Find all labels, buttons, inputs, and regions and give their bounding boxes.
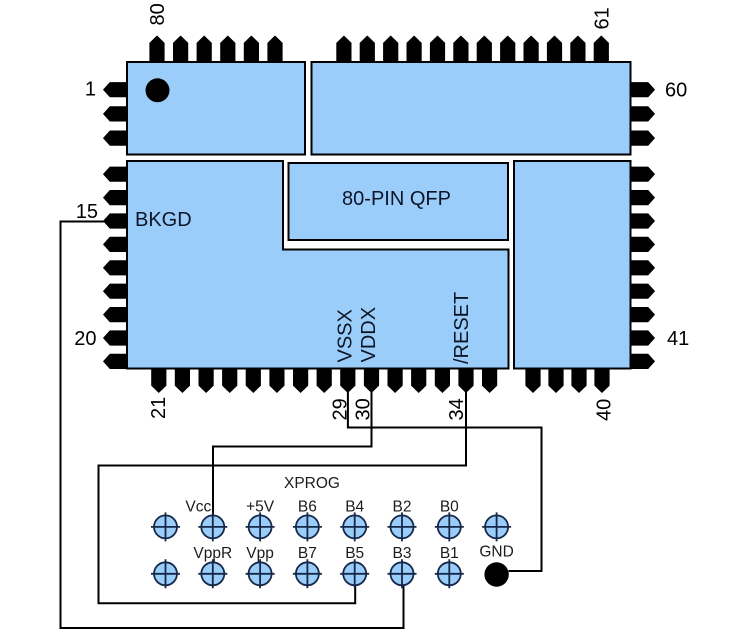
XPROG header pad Vpp bottom row col 3 <box>246 559 275 588</box>
svg-text:B4: B4 <box>345 499 364 516</box>
XPROG header pad VppR bottom row col 2 <box>198 559 227 588</box>
top pin group pins 74-61 <box>337 36 609 63</box>
svg-text:Vcc: Vcc <box>185 499 211 516</box>
bottom pin group pins 21-35 incl VSSX 29 VDDX 30 RESET 34 <box>152 368 497 393</box>
XPROG header pad +5V top row col 3 <box>246 512 275 541</box>
XPROG header pad B3 bottom row col 6 <box>388 559 417 588</box>
QFP body main lower-left L-shaped block <box>127 161 509 369</box>
svg-text:20: 20 <box>74 328 96 350</box>
XPROG header pad B7 bottom row col 4 <box>293 559 322 588</box>
XPROG header pad B5 bottom row col 5 <box>340 559 369 588</box>
svg-text:80: 80 <box>147 3 169 25</box>
svg-text:41: 41 <box>667 328 689 350</box>
right pin group pins 48-41 <box>630 167 655 369</box>
wire BKGD net: pin 15 to XPROG B3 <box>61 222 404 629</box>
svg-text:1: 1 <box>85 79 96 101</box>
left pin group pins 1-3 <box>104 83 128 146</box>
XPROG header pad Vcc top row col 2 <box>198 512 227 541</box>
svg-text:B1: B1 <box>440 545 459 562</box>
bottom pin group pins 37-40 <box>526 368 609 393</box>
svg-text:40: 40 <box>594 399 616 421</box>
svg-text:60: 60 <box>665 80 687 102</box>
wire /RESET net: pin 34 to XPROG B5 <box>99 389 467 603</box>
svg-text:29: 29 <box>330 398 352 420</box>
svg-text:15: 15 <box>76 201 98 223</box>
wire VSSX net: pin 29 to XPROG GND <box>348 389 542 571</box>
svg-text:34: 34 <box>446 398 468 420</box>
svg-text:BKGD: BKGD <box>135 209 192 231</box>
XPROG header pad B4 top row col 5 <box>340 512 369 541</box>
XPROG header pad GND (filled) bottom row col 8 <box>484 562 508 586</box>
svg-text:VppR: VppR <box>193 545 232 562</box>
XPROG header pad B0 top row col 7 <box>435 512 464 541</box>
QFP body top-left block <box>127 62 305 155</box>
left pin group pins 13-20 incl BKGD pin 15 <box>104 167 128 369</box>
svg-text:XPROG: XPROG <box>284 475 340 492</box>
wire VDDX net: pin 30 to XPROG Vcc <box>213 389 372 516</box>
QFP body top-right block <box>312 62 631 155</box>
svg-text:Vpp: Vpp <box>246 545 274 562</box>
svg-text:B3: B3 <box>393 545 412 562</box>
XPROG header pad B1 bottom row col 7 <box>435 559 464 588</box>
svg-text:30: 30 <box>353 398 375 420</box>
svg-text:B5: B5 <box>345 545 364 562</box>
svg-text:+5V: +5V <box>246 499 275 516</box>
top pin group pins 80-75 <box>150 36 282 63</box>
svg-text:B0: B0 <box>440 499 459 516</box>
XPROG header pad A8 top row col 8 <box>482 512 511 541</box>
right pin group pins 60-58 <box>630 83 655 146</box>
QFP body lower-right block <box>514 161 631 369</box>
svg-text:80-PIN QFP: 80-PIN QFP <box>342 188 451 210</box>
svg-text:B7: B7 <box>298 545 317 562</box>
svg-text:VSSX: VSSX <box>335 309 357 362</box>
svg-text:61: 61 <box>592 7 614 29</box>
pin-1 indicator dot <box>146 78 170 102</box>
svg-text:B2: B2 <box>393 499 412 516</box>
svg-text:/RESET: /RESET <box>451 292 473 364</box>
XPROG header pad B1row bottom row col 1 <box>151 559 180 588</box>
svg-text:VDDX: VDDX <box>358 307 380 363</box>
XPROG header pad B2 top row col 6 <box>388 512 417 541</box>
QFP inner label block 80-PIN QFP <box>289 163 509 240</box>
svg-text:B6: B6 <box>298 499 317 516</box>
XPROG header pad A1 top row col 1 <box>151 512 180 541</box>
XPROG header pad B6 top row col 4 <box>293 512 322 541</box>
svg-text:21: 21 <box>148 397 170 419</box>
svg-text:GND: GND <box>479 544 513 561</box>
